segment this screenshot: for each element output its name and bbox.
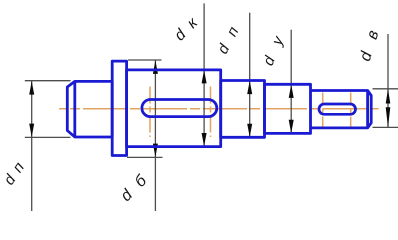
dimension dk up arrow bbox=[202, 70, 207, 83]
keyway1 left centerline bbox=[149, 87, 151, 138]
dimension dv bottom extension bbox=[373, 126, 398, 128]
keyway slot 2 bbox=[319, 104, 356, 114]
shaft left journal with chamfer bbox=[67, 81, 112, 137]
dimension db bottom extension bbox=[127, 156, 163, 158]
dimension du line bbox=[290, 30, 292, 134]
axis centerline bbox=[59, 108, 379, 110]
dimension db line bbox=[154, 60, 156, 211]
dimension dv top extension bbox=[373, 88, 398, 90]
keyway2 right centerline bbox=[350, 93, 352, 127]
dimension du up arrow bbox=[289, 85, 294, 98]
dimension dk line bbox=[203, 3, 205, 146]
dimension dv up arrow bbox=[386, 89, 391, 104]
dimension du down arrow bbox=[289, 120, 294, 133]
left chamfer edge line bbox=[73, 81, 76, 137]
dp section bbox=[221, 81, 265, 138]
collar bbox=[112, 61, 126, 155]
dimension db down arrow bbox=[153, 144, 158, 157]
dimension db up arrow bbox=[153, 61, 158, 74]
dimension dk down arrow bbox=[202, 133, 207, 146]
dimension dv line bbox=[387, 34, 389, 128]
dimension dp2 down arrow bbox=[247, 124, 252, 137]
svg-text:dу: dу bbox=[260, 21, 293, 68]
keyway2 left centerline bbox=[322, 93, 324, 127]
dk section bbox=[127, 70, 221, 147]
dimension dv down arrow bbox=[386, 107, 391, 127]
dimension dp1 line bbox=[31, 80, 33, 211]
dimension dp1 top extension bbox=[25, 80, 71, 82]
dimension dp1 down arrow bbox=[29, 124, 34, 137]
right chamfer edge line bbox=[366, 91, 369, 128]
svg-text:dк: dк bbox=[171, 8, 207, 44]
keyway slot 1 bbox=[142, 100, 217, 117]
dimension dp1 up arrow bbox=[29, 81, 34, 94]
dimension dp2 line bbox=[249, 13, 251, 137]
keyway1 right centerline bbox=[210, 87, 212, 138]
svg-text:dв: dв bbox=[357, 15, 386, 63]
du section bbox=[265, 84, 311, 133]
svg-text:dб: dб bbox=[118, 165, 158, 205]
dv section with right chamfer bbox=[311, 91, 372, 128]
dimension dp2 up arrow bbox=[247, 81, 252, 94]
dimension db top extension bbox=[128, 59, 162, 61]
svg-text:dп: dп bbox=[1, 154, 32, 189]
dimension dp1 bottom extension bbox=[25, 136, 71, 138]
svg-text:dп: dп bbox=[214, 14, 248, 57]
